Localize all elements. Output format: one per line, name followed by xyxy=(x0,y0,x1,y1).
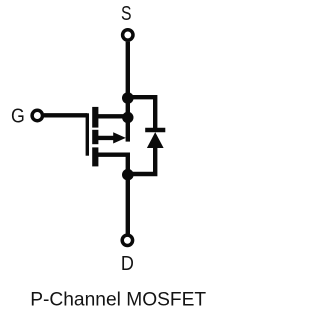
svg-text:P-Channel MOSFET: P-Channel MOSFET xyxy=(30,289,206,310)
arrow: body arrow pointing right (P-channel) xyxy=(113,132,126,143)
MOSFET Q1: gate plate xyxy=(86,113,89,155)
body diode D1: anode triangle pointing up xyxy=(147,132,164,148)
svg-text:G: G xyxy=(11,105,25,127)
wire: rail from drain node down to D terminal xyxy=(126,175,130,235)
MOSFET Q1: source channel segment xyxy=(92,107,98,128)
junction dot: drain/diode node xyxy=(122,169,134,181)
body diode D1: anode lead to drain node xyxy=(128,147,155,174)
terminal D (open circle) xyxy=(122,235,132,245)
MOSFET Q1: body channel segment xyxy=(92,130,98,144)
wire: body stub below source-bar node xyxy=(126,118,130,142)
junction dot: source-bar node xyxy=(122,112,133,123)
wire: source segment to rail xyxy=(97,114,128,118)
wire: S terminal stem down to source node xyxy=(126,42,130,98)
wire: drain segment to rail xyxy=(97,155,128,175)
wire: body connection from body segment xyxy=(97,136,115,140)
junction dot: source/diode node xyxy=(122,92,134,104)
svg-text:D: D xyxy=(121,253,134,275)
wire: gate lead from G terminal to gate plate xyxy=(44,113,87,117)
MOSFET Q1: drain channel segment xyxy=(92,147,98,166)
body diode D1: cathode lead from source node xyxy=(128,97,155,130)
body diode D1: cathode bar xyxy=(145,128,165,132)
terminal S (open circle) xyxy=(123,30,133,40)
terminal G (open circle) xyxy=(32,110,42,120)
wire: rail from source/diode node to source-bar node xyxy=(126,98,130,118)
svg-text:S: S xyxy=(121,3,132,25)
